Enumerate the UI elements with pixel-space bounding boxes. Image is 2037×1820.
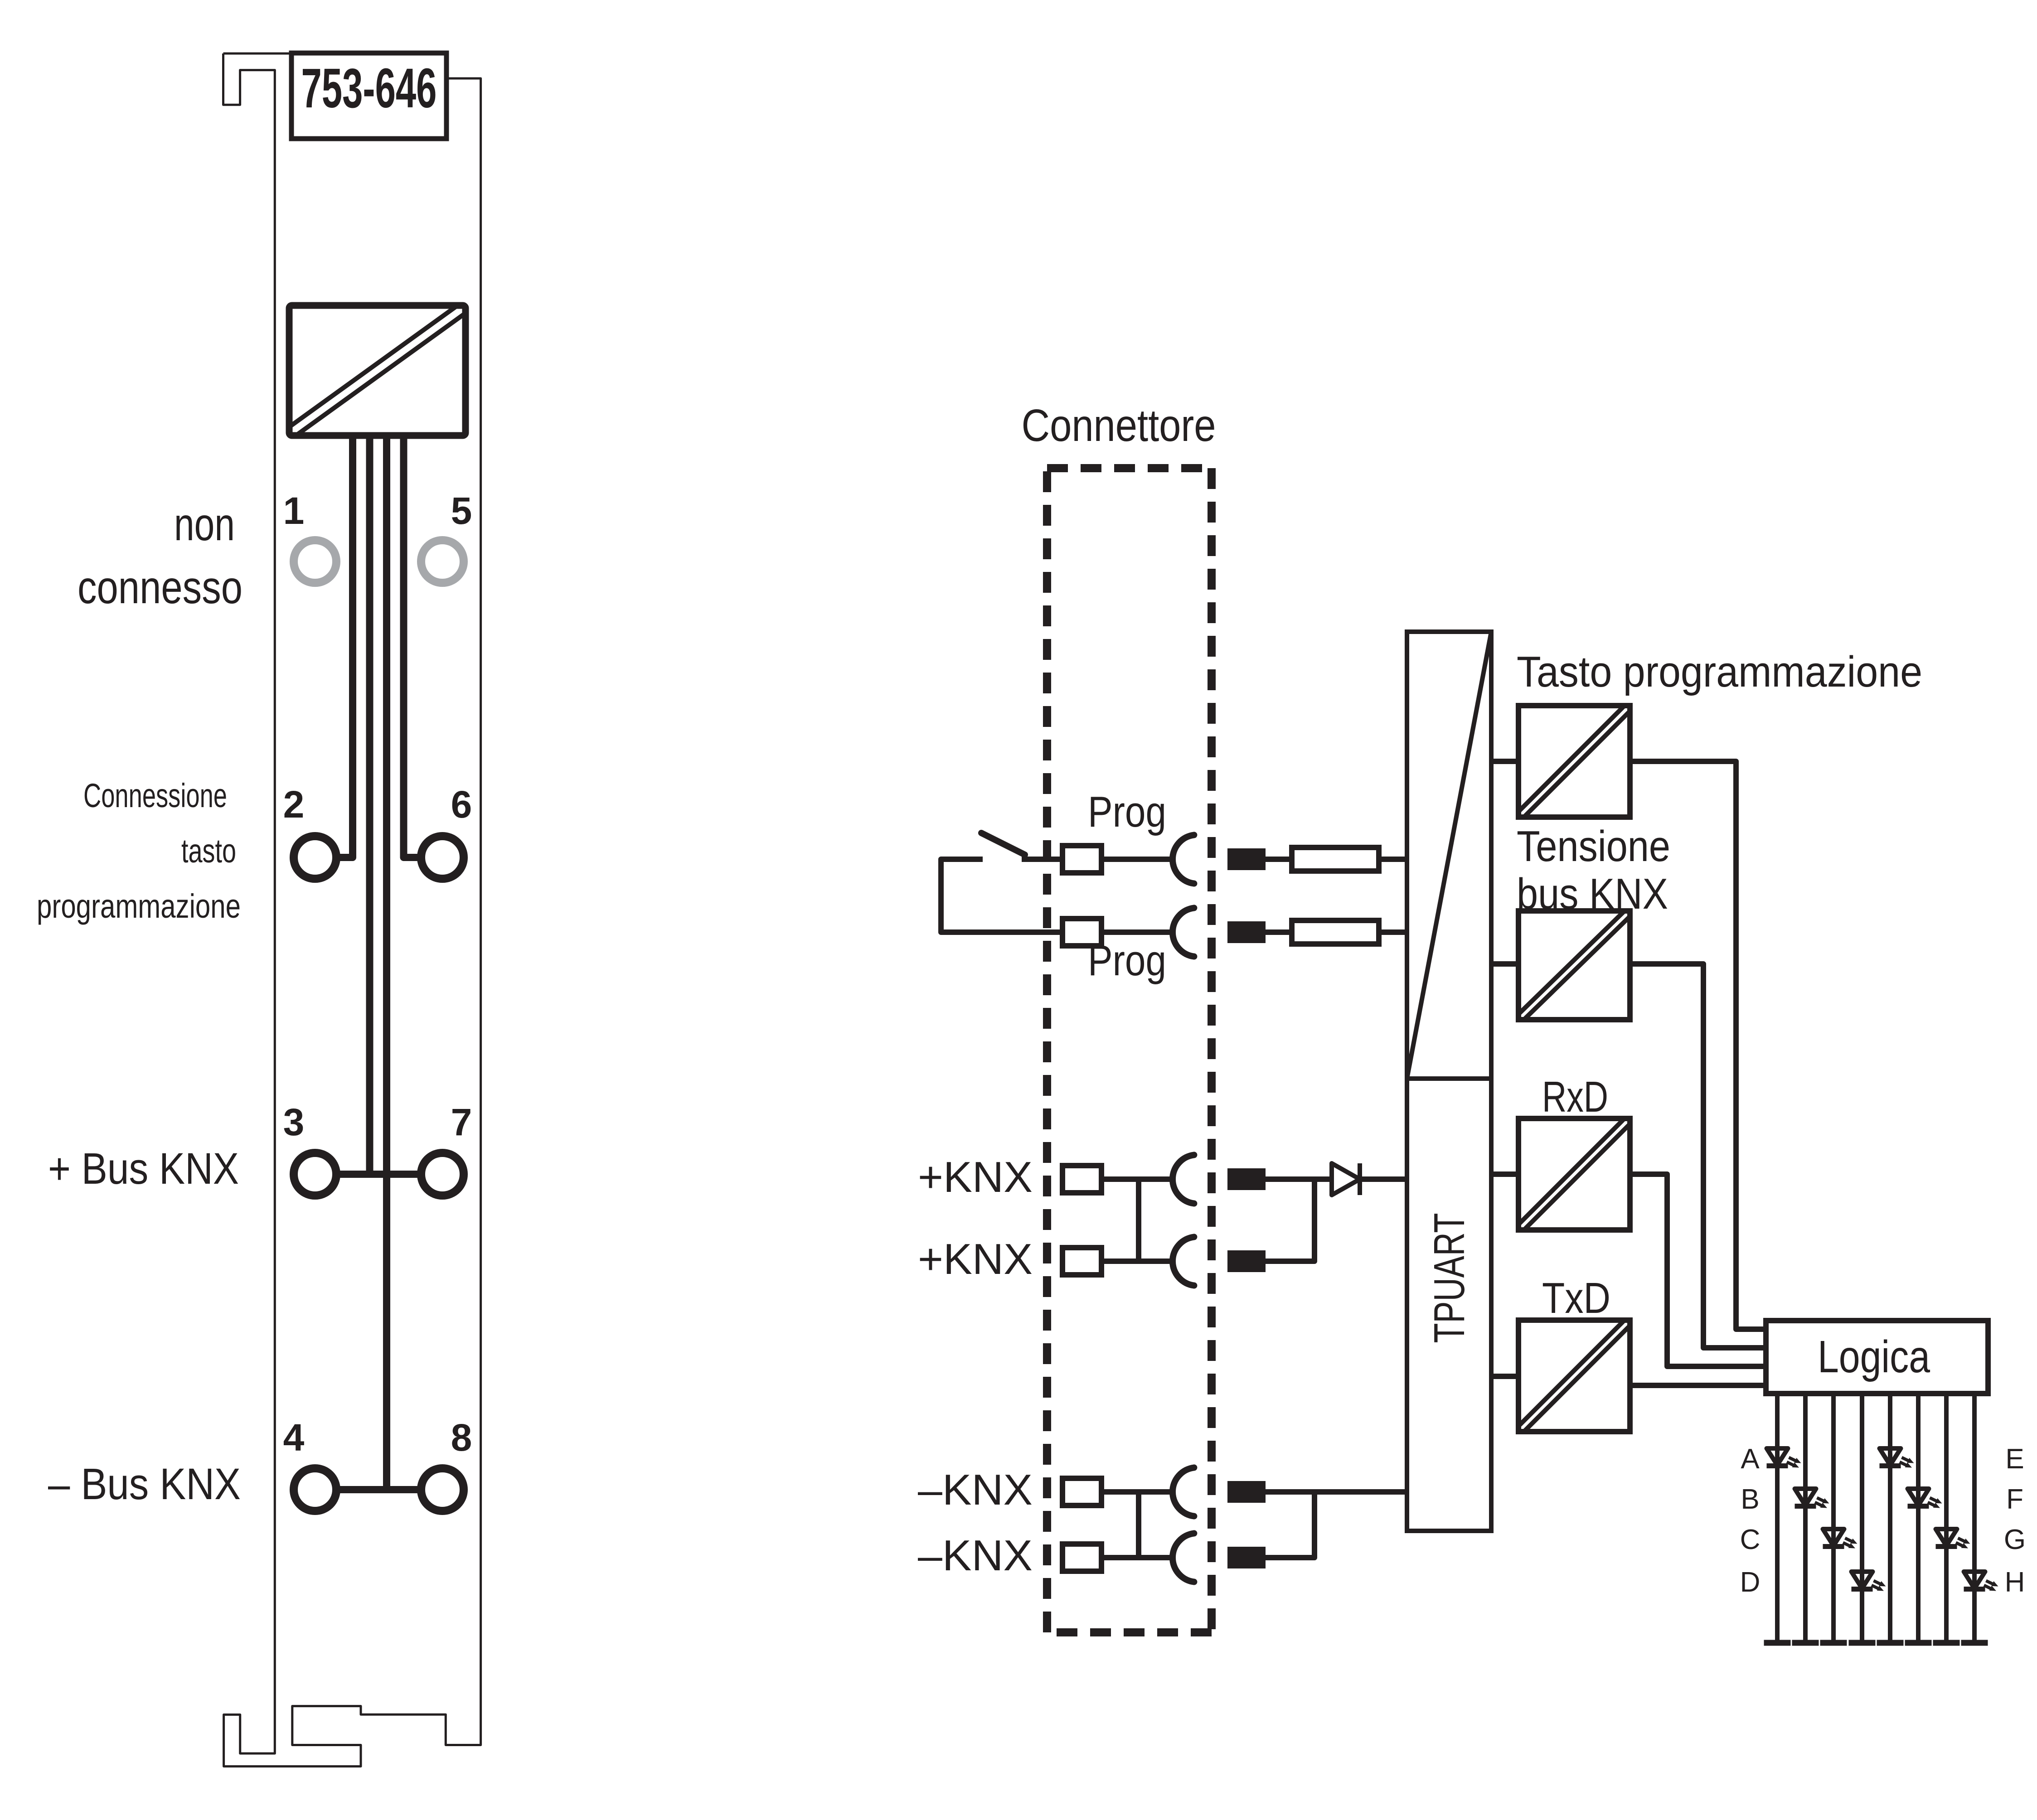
wire -KNX2 pin up to -KNX1 net	[1266, 1492, 1314, 1558]
electronics block U1 diagonal	[291, 305, 464, 434]
wire +KNX2 pin up to +KNX1 net	[1266, 1179, 1314, 1261]
terminal 6	[421, 836, 464, 879]
wire prog2 pin to R2	[1266, 929, 1292, 935]
bridge -KNX terminals	[1136, 1492, 1141, 1558]
opto coupler 2 (Tensione bus KNX)	[1518, 911, 1630, 1020]
wire TPUART to opto4	[1491, 1374, 1518, 1379]
wire R2 to isolator	[1379, 929, 1407, 935]
svg-text:connesso: connesso	[78, 561, 242, 613]
wire +KNX1 to socket	[1101, 1176, 1174, 1182]
connector boundary dashed box	[1047, 468, 1212, 1632]
svg-text:– Bus KNX: – Bus KNX	[48, 1459, 241, 1509]
svg-text:E: E	[2005, 1443, 2024, 1475]
wire isolator to opto2	[1491, 961, 1518, 967]
svg-text:B: B	[1741, 1484, 1759, 1515]
svg-text:Prog: Prog	[1088, 936, 1166, 985]
svg-text:–KNX: –KNX	[918, 1466, 1033, 1514]
electronics block U1 (module internal coupler)	[289, 305, 466, 436]
diode D1	[1332, 1163, 1360, 1195]
wire +KNX1 pin to diode	[1266, 1176, 1332, 1182]
resistor R1	[1292, 847, 1379, 871]
wire opto1 to logic	[1630, 761, 1766, 1329]
svg-text:+ Bus KNX: + Bus KNX	[48, 1144, 239, 1193]
wire block to terminal 2	[337, 433, 353, 857]
svg-text:RxD: RxD	[1542, 1073, 1608, 1121]
wire -KNX2 to socket	[1101, 1555, 1174, 1560]
terminal 5 (not connected)	[421, 540, 464, 583]
wire block to terminal 6	[404, 433, 418, 857]
svg-text:C: C	[1740, 1524, 1761, 1555]
logic output pin 6	[1916, 1394, 1921, 1640]
terminal 8	[421, 1468, 464, 1511]
svg-text:Tensione: Tensione	[1517, 822, 1670, 871]
svg-text:tasto: tasto	[181, 832, 236, 870]
logic output pin 4	[1860, 1394, 1864, 1640]
logic output pin 3	[1831, 1394, 1836, 1640]
svg-text:D: D	[1740, 1567, 1761, 1598]
resistor R2	[1292, 920, 1379, 944]
socket contact +KNX2	[1173, 1237, 1194, 1285]
wire prog1 to terminal	[1022, 857, 1063, 862]
wire prog1 pin to R1	[1266, 857, 1292, 862]
LED C	[1823, 1529, 1858, 1549]
terminal 2	[294, 836, 336, 879]
terminal +KNX 1	[1062, 1166, 1101, 1193]
terminal +KNX 2	[1062, 1248, 1101, 1275]
svg-text:H: H	[2005, 1567, 2025, 1598]
socket contact -KNX2	[1173, 1533, 1194, 1582]
logic output pin 5	[1888, 1394, 1892, 1640]
ground bar LED E	[1877, 1640, 1904, 1646]
opto coupler 1 (Tasto programmazione)	[1518, 706, 1630, 817]
prog button switch blade	[981, 833, 1025, 855]
svg-text:7: 7	[451, 1101, 472, 1143]
ground bar LED F	[1905, 1640, 1932, 1646]
socket contact prog1	[1173, 835, 1194, 883]
svg-text:+KNX: +KNX	[918, 1153, 1033, 1201]
connector pin +KNX2	[1227, 1250, 1266, 1272]
wire isolator to opto1	[1491, 759, 1518, 764]
socket contact -KNX1	[1173, 1467, 1194, 1516]
LED H	[1964, 1572, 1998, 1591]
isolator diagonal	[1407, 632, 1491, 1079]
ground bar LED H	[1961, 1640, 1988, 1646]
ground bar LED D	[1849, 1640, 1876, 1646]
svg-text:5: 5	[451, 489, 472, 532]
wire terminal 3 to 7	[338, 1171, 420, 1178]
wire block to terminal 4/8	[383, 433, 390, 1490]
terminal 1 (not connected)	[294, 540, 336, 583]
LED A	[1767, 1448, 1801, 1468]
logic block	[1766, 1321, 1988, 1394]
terminal 3	[294, 1153, 336, 1196]
wire diode to TPUART	[1360, 1176, 1407, 1182]
wire terminal 4 to 8	[338, 1486, 420, 1493]
ground bar LED A	[1764, 1640, 1791, 1646]
socket contact +KNX1	[1173, 1155, 1194, 1203]
wire TPUART to opto3	[1491, 1171, 1518, 1177]
svg-text:4: 4	[283, 1416, 305, 1459]
svg-text:Tasto programmazione: Tasto programmazione	[1517, 648, 1922, 696]
connector pin -KNX2	[1227, 1547, 1266, 1568]
ground bar LED B	[1792, 1640, 1819, 1646]
svg-text:Connessione: Connessione	[83, 777, 227, 814]
ground bar LED G	[1933, 1640, 1960, 1646]
wire +KNX2 to socket	[1101, 1259, 1174, 1264]
module label box	[291, 53, 446, 139]
logic output pin 7	[1944, 1394, 1949, 1640]
wire opto2 to logic	[1630, 964, 1766, 1348]
terminal -KNX 1	[1062, 1478, 1101, 1505]
svg-text:F: F	[2006, 1484, 2023, 1515]
logic output pin 1	[1775, 1394, 1780, 1640]
TPUART block	[1407, 1079, 1491, 1531]
terminal 7	[421, 1153, 464, 1196]
terminal 4	[294, 1468, 336, 1511]
module body outline 753-646	[223, 53, 481, 1767]
terminal Prog bottom	[1062, 919, 1101, 946]
wire opto3 to logic	[1630, 1174, 1766, 1366]
svg-text:–KNX: –KNX	[918, 1531, 1033, 1580]
svg-text:Logica: Logica	[1818, 1331, 1930, 1382]
LED B	[1795, 1489, 1829, 1508]
connector pin -KNX1	[1227, 1481, 1266, 1503]
svg-text:programmazione: programmazione	[37, 887, 241, 925]
svg-text:A: A	[1741, 1443, 1760, 1475]
terminal -KNX 2	[1062, 1544, 1101, 1571]
opto coupler 4 (TxD)	[1518, 1320, 1630, 1432]
terminal Prog top	[1062, 846, 1101, 873]
prog button bracket wire	[941, 859, 1062, 932]
ground bar LED C	[1820, 1640, 1847, 1646]
wire prog2 to terminal	[941, 929, 1063, 935]
bridge +KNX terminals	[1136, 1179, 1141, 1261]
logic output pin 2	[1803, 1394, 1808, 1640]
svg-text:2: 2	[283, 783, 305, 826]
wire prog2 to socket	[1101, 929, 1174, 935]
connector pin +KNX1	[1227, 1168, 1266, 1190]
wire opto4 to logic	[1630, 1383, 1766, 1388]
logic output pin 8	[1972, 1394, 1977, 1640]
svg-text:8: 8	[451, 1416, 472, 1459]
svg-text:TxD: TxD	[1542, 1274, 1610, 1322]
LED E	[1880, 1448, 1914, 1468]
connector pin prog2	[1227, 921, 1266, 943]
wire -KNX1 to socket	[1101, 1489, 1174, 1495]
svg-text:+KNX: +KNX	[918, 1235, 1033, 1283]
wire R1 to isolator	[1379, 857, 1407, 862]
svg-text:6: 6	[451, 783, 472, 826]
svg-text:1: 1	[283, 489, 305, 532]
wire -KNX1 pin to TPUART	[1266, 1489, 1407, 1495]
svg-text:Connettore: Connettore	[1022, 400, 1216, 451]
LED F	[1908, 1489, 1942, 1508]
svg-text:3: 3	[283, 1101, 305, 1143]
svg-text:G: G	[2004, 1524, 2026, 1555]
socket contact prog2	[1173, 908, 1194, 956]
svg-text:753-646: 753-646	[301, 58, 437, 120]
connector pin prog1	[1227, 848, 1266, 870]
wire block to terminal 3/7	[366, 433, 373, 1174]
svg-text:non: non	[174, 499, 235, 550]
opto coupler 3 (RxD)	[1518, 1118, 1630, 1230]
svg-text:TPUART: TPUART	[1425, 1213, 1474, 1343]
wire prog1 to socket	[1101, 857, 1174, 862]
LED D	[1852, 1572, 1886, 1591]
svg-text:Prog: Prog	[1088, 788, 1166, 836]
isolator block (galvanic separation)	[1407, 632, 1491, 1079]
LED G	[1936, 1529, 1970, 1549]
